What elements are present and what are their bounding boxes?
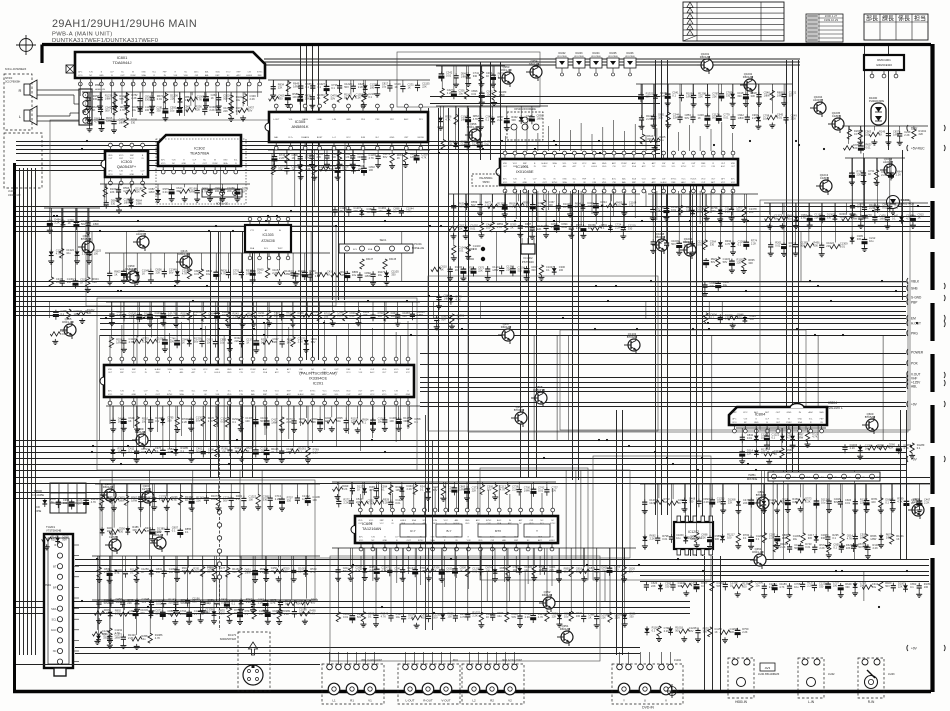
wire vertical x902 upper xyxy=(902,150,904,300)
svg-text:D1002: D1002 xyxy=(558,52,566,55)
wire stubs from IC601 pins xyxy=(360,481,552,589)
svg-text:2.2K: 2.2K xyxy=(258,600,264,604)
svg-text:AGC: AGC xyxy=(51,628,57,632)
IC302 TEA5708A xyxy=(158,135,241,174)
svg-text:VDD: VDD xyxy=(382,369,387,371)
svg-text:VDD: VDD xyxy=(227,394,232,396)
svg-text:H080-IN: H080-IN xyxy=(735,700,748,704)
component cluster x700 y255 xyxy=(702,257,755,297)
outside border arc marks xyxy=(944,125,945,651)
svg-text:DUNTKA317WEF1/DUNTKA317WEF0: DUNTKA317WEF1/DUNTKA317WEF0 xyxy=(52,38,158,44)
wire bus top audio xyxy=(264,59,800,65)
svg-text:OP1001 ROOMADE: OP1001 ROOMADE xyxy=(514,108,536,111)
wire bus y496 left xyxy=(16,493,240,499)
svg-text:0.1: 0.1 xyxy=(362,420,366,424)
IC1001 dashed option box PAL/N56011 56PIN xyxy=(472,174,500,186)
svg-text:IC1202: IC1202 xyxy=(688,530,699,534)
svg-text:MTX: MTX xyxy=(495,529,501,533)
svg-text:AN5891K: AN5891K xyxy=(291,124,308,129)
component cluster x330-440 y200 xyxy=(332,206,414,217)
svg-text:1K: 1K xyxy=(433,568,436,572)
svg-text:SCL: SCL xyxy=(51,617,57,621)
svg-text:4.7K: 4.7K xyxy=(355,569,361,573)
svg-text:100: 100 xyxy=(312,498,317,502)
transistor Q350 A1015Y xyxy=(133,229,149,251)
svg-text:50V: 50V xyxy=(196,450,201,454)
wire bus upper left xyxy=(16,142,660,154)
svg-text:CLP: CLP xyxy=(144,391,149,393)
component cluster bottom right lower xyxy=(644,580,932,642)
svg-text:NC: NC xyxy=(53,649,57,653)
svg-text:100: 100 xyxy=(94,251,99,255)
svg-text:R3138: R3138 xyxy=(389,258,397,261)
component cluster Q200 area xyxy=(95,484,320,542)
svg-text:2.2K: 2.2K xyxy=(182,420,188,424)
right edge signal stubs xyxy=(907,125,925,651)
wire stubs from IC201 pins xyxy=(110,311,408,453)
svg-text:330: 330 xyxy=(628,227,633,231)
svg-text:C1815: C1815 xyxy=(832,114,841,118)
svg-text:GND: GND xyxy=(787,412,792,414)
wire bus y280-305 xyxy=(16,282,906,302)
svg-text:KDS794E: KDS794E xyxy=(574,56,584,58)
svg-text:J1203: J1203 xyxy=(888,673,895,676)
svg-text:GND: GND xyxy=(390,137,395,139)
svg-text:22K: 22K xyxy=(664,500,669,504)
svg-text:EM: EM xyxy=(911,316,916,320)
resistor R3137 R3138 pair xyxy=(360,258,397,269)
svg-text:BT05AR: BT05AR xyxy=(865,415,876,419)
svg-text:課長: 課長 xyxy=(882,14,894,22)
svg-text:CW: CW xyxy=(662,163,665,165)
svg-text:22K: 22K xyxy=(317,155,322,159)
component cluster below Q353 area xyxy=(436,106,548,150)
svg-text:Y-IN: Y-IN xyxy=(172,160,176,162)
svg-text:APC: APC xyxy=(108,170,113,173)
svg-text:22K: 22K xyxy=(673,115,678,119)
svg-text:10u: 10u xyxy=(457,317,462,321)
svg-text:10u: 10u xyxy=(378,420,383,424)
svg-text:AFC: AFC xyxy=(754,411,759,414)
svg-text:4.7K: 4.7K xyxy=(310,570,316,574)
svg-text:Y-IN: Y-IN xyxy=(358,372,362,374)
wire vertical bundle x300 xyxy=(301,46,319,360)
svg-text:330: 330 xyxy=(145,98,150,102)
svg-text:D601-AR: D601-AR xyxy=(62,320,74,324)
svg-text:22K: 22K xyxy=(234,339,239,343)
svg-text:VCC: VCC xyxy=(322,391,327,393)
svg-text:0.01: 0.01 xyxy=(157,97,163,101)
svg-text:VCC: VCC xyxy=(721,182,726,184)
svg-text:10u: 10u xyxy=(459,91,464,95)
wire bus y673 bottom xyxy=(16,664,320,666)
svg-text:AGC: AGC xyxy=(322,393,327,396)
svg-text:0.1: 0.1 xyxy=(128,450,132,454)
svg-text:22K: 22K xyxy=(698,94,703,98)
svg-text:GND: GND xyxy=(132,394,137,396)
wire bus y440-470 xyxy=(16,441,906,471)
svg-text:1K: 1K xyxy=(918,216,921,220)
svg-text:4.7K: 4.7K xyxy=(368,501,374,505)
svg-text:1K: 1K xyxy=(299,420,302,424)
wire bus y205-235 xyxy=(16,207,930,232)
svg-text:AGC: AGC xyxy=(612,178,617,181)
svg-text:SDA: SDA xyxy=(552,162,557,165)
diode D1002 PX02T4CE xyxy=(887,196,915,215)
svg-text:4.7K: 4.7K xyxy=(369,156,375,160)
wire vertical bundle x208-252 xyxy=(211,232,253,478)
svg-text:0.01: 0.01 xyxy=(156,601,162,605)
svg-text:1K: 1K xyxy=(698,116,701,120)
sub-circuit outline boxes xyxy=(50,52,910,661)
svg-text:0.01: 0.01 xyxy=(723,116,729,120)
svg-text:50V: 50V xyxy=(105,108,110,112)
svg-text:0.01: 0.01 xyxy=(472,570,478,574)
svg-text:0.1: 0.1 xyxy=(172,528,176,532)
svg-text:FBP: FBP xyxy=(130,155,135,157)
svg-text:0C1CPB00BH: 0C1CPB00BH xyxy=(5,81,21,84)
wire vertical right x905 xyxy=(901,410,907,560)
svg-text:10u: 10u xyxy=(208,451,213,455)
svg-text:2.2K: 2.2K xyxy=(615,615,621,619)
svg-text:0.01: 0.01 xyxy=(297,314,303,318)
component cluster far left tuner x44 xyxy=(42,497,99,550)
svg-text:50V: 50V xyxy=(471,203,476,207)
svg-text:-0F5E: -0F5E xyxy=(35,510,42,513)
svg-text:2.2K: 2.2K xyxy=(250,97,256,101)
svg-text:BT09AR: BT09AR xyxy=(627,335,638,339)
op-amp IC801 TDA6944J audio amplifier xyxy=(75,52,265,86)
svg-text:2.2K: 2.2K xyxy=(208,419,214,423)
svg-text:ABL: ABL xyxy=(911,384,917,388)
transistor Q450 BT09AR xyxy=(511,405,527,427)
svg-text:1K: 1K xyxy=(92,108,95,112)
svg-text:1K: 1K xyxy=(397,156,400,160)
svg-text:SYNC: SYNC xyxy=(167,394,173,396)
border right thick line lower solid segment xyxy=(930,558,934,692)
transistor Q209 D601AR xyxy=(132,427,148,449)
svg-text:VCC: VCC xyxy=(681,179,686,181)
svg-text:J801 0-G01-G6ZZ: J801 0-G01-G6ZZ xyxy=(361,658,382,662)
svg-text:AGC: AGC xyxy=(681,181,686,184)
svg-text:VCO: VCO xyxy=(382,394,387,396)
svg-text:L1: L1 xyxy=(332,699,336,703)
svg-text:SDA: SDA xyxy=(250,247,255,250)
component cluster Q353 bias network xyxy=(436,66,507,106)
svg-text:FBP: FBP xyxy=(406,369,411,371)
svg-text:VDD: VDD xyxy=(478,540,483,542)
svg-text:APC: APC xyxy=(237,74,242,77)
svg-text:S-GND: S-GND xyxy=(911,295,922,299)
svg-text:V2: V2 xyxy=(508,699,512,703)
svg-text:TDA6944J: TDA6944J xyxy=(113,60,132,65)
svg-text:2.2K: 2.2K xyxy=(472,614,478,618)
component cluster IC1303 area xyxy=(293,270,400,286)
svg-text:係長: 係長 xyxy=(898,14,910,22)
svg-text:50V: 50V xyxy=(671,242,676,246)
bottom crosshair mark xyxy=(668,687,677,696)
svg-text:S0000/S3T2ZZ: S0000/S3T2ZZ xyxy=(220,638,237,641)
svg-text:PST994C: PST994C xyxy=(522,260,534,264)
transistor Q1002 D601AR xyxy=(740,72,756,94)
svg-text:2.2K: 2.2K xyxy=(298,340,304,344)
svg-text:330: 330 xyxy=(827,215,832,219)
svg-text:330: 330 xyxy=(93,97,98,101)
svg-text:SDA: SDA xyxy=(632,178,637,181)
svg-text:50V: 50V xyxy=(512,615,517,619)
svg-text:APC: APC xyxy=(359,536,364,539)
svg-text:50V: 50V xyxy=(441,317,446,321)
border bottom thick line xyxy=(13,690,931,694)
wire vertical bundle x790 xyxy=(787,60,799,478)
svg-text:0.1: 0.1 xyxy=(232,420,236,424)
svg-text:22K: 22K xyxy=(601,569,606,573)
svg-text:50V: 50V xyxy=(104,601,109,605)
svg-text:A1015Y: A1015Y xyxy=(883,160,893,164)
svg-text:10u: 10u xyxy=(324,314,329,318)
svg-text:APC: APC xyxy=(161,159,166,162)
svg-text:2.2K: 2.2K xyxy=(646,117,652,121)
svg-text:330: 330 xyxy=(629,614,634,618)
IC804 top dome coil symbol xyxy=(790,404,804,409)
svg-text:1K: 1K xyxy=(246,449,249,453)
svg-text:PWB1: PWB1 xyxy=(748,473,756,477)
svg-text:GND: GND xyxy=(602,163,607,165)
svg-text:1K: 1K xyxy=(182,340,185,344)
svg-text:IC1303: IC1303 xyxy=(263,233,274,237)
svg-text:SDA: SDA xyxy=(263,371,268,374)
svg-text:2.2K: 2.2K xyxy=(279,156,285,160)
IC601 TA1216AN RGB processor xyxy=(351,508,558,551)
svg-text:330: 330 xyxy=(131,121,136,125)
IC804 pin name row xyxy=(732,411,824,414)
transistor Q200 C2735 xyxy=(138,484,154,506)
svg-text:BT09AR: BT09AR xyxy=(514,408,525,412)
svg-text:22K: 22K xyxy=(537,227,542,231)
svg-text:H-BLK: H-BLK xyxy=(690,179,697,181)
svg-text:10u: 10u xyxy=(236,98,241,102)
svg-text:Y-IN: Y-IN xyxy=(743,419,747,421)
connector P801 header xyxy=(79,84,106,125)
svg-text:0.01: 0.01 xyxy=(395,501,401,505)
svg-text:10u: 10u xyxy=(382,84,387,88)
svg-text:56PIN: 56PIN xyxy=(483,181,490,184)
svg-text:10u: 10u xyxy=(649,501,654,505)
svg-text:1/8W: 1/8W xyxy=(129,314,136,318)
svg-text:SYNC: SYNC xyxy=(671,179,677,181)
svg-text:0.1: 0.1 xyxy=(509,205,513,209)
svg-text:B708AR: B708AR xyxy=(81,237,91,241)
svg-text:POK: POK xyxy=(911,361,919,365)
svg-text:R3137: R3137 xyxy=(366,258,374,261)
svg-text:0.01: 0.01 xyxy=(343,615,349,619)
svg-text:BT: BT xyxy=(53,564,57,568)
svg-text:PAL/N56011: PAL/N56011 xyxy=(479,177,493,180)
svg-text:100: 100 xyxy=(369,168,374,172)
wire vertical bundle bottom x700-730 xyxy=(705,556,721,690)
svg-text:CNT: CNT xyxy=(404,137,409,139)
svg-text:GND: GND xyxy=(227,372,232,374)
svg-text:0.01: 0.01 xyxy=(471,92,477,96)
test point TP1001 xyxy=(481,247,485,251)
svg-text:22K: 22K xyxy=(342,168,347,172)
svg-text:100: 100 xyxy=(370,85,375,89)
svg-text:0.1: 0.1 xyxy=(414,420,418,424)
svg-text:2.2K: 2.2K xyxy=(615,225,621,229)
svg-text:22K: 22K xyxy=(601,615,606,619)
link connector J0201 column xyxy=(207,445,222,630)
svg-text:AGC: AGC xyxy=(497,519,502,522)
svg-text:1K: 1K xyxy=(246,341,249,345)
svg-text:Y-IN: Y-IN xyxy=(120,391,124,393)
svg-text:GND: GND xyxy=(383,540,388,542)
svg-text:330: 330 xyxy=(751,94,756,98)
svg-text:CLP: CLP xyxy=(701,182,706,184)
svg-text:MODE: MODE xyxy=(418,137,425,139)
svg-text:TP1002: TP1002 xyxy=(466,258,475,261)
registration crosshair mark xyxy=(20,39,33,52)
svg-text:PRG: PRG xyxy=(911,331,918,335)
svg-text:0.1: 0.1 xyxy=(312,313,316,317)
IC1303 AT26C08 EEPROM xyxy=(245,217,291,260)
svg-text:VTSTEHD4B: VTSTEHD4B xyxy=(46,529,62,533)
IC305 AN5891K sound processor xyxy=(265,104,428,150)
svg-text:29AH1/29UH1/29UH6 MAIN: 29AH1/29UH1/29UH6 MAIN xyxy=(52,18,197,30)
transistor Q351 D601AR xyxy=(557,624,573,646)
svg-text:2.2K: 2.2K xyxy=(343,500,349,504)
svg-text:22K: 22K xyxy=(919,132,924,136)
svg-text:0.01: 0.01 xyxy=(497,225,503,229)
svg-text:FBP: FBP xyxy=(203,391,208,393)
svg-text:330: 330 xyxy=(332,155,337,159)
svg-text:CW: CW xyxy=(239,372,242,374)
svg-text:4.7K: 4.7K xyxy=(381,614,387,618)
svg-text:22K: 22K xyxy=(472,489,477,493)
svg-text:GND: GND xyxy=(562,179,567,181)
svg-text:SDA: SDA xyxy=(215,71,220,74)
svg-text:FBP: FBP xyxy=(394,372,399,374)
transistor Q451 D601-AR xyxy=(750,547,766,569)
svg-text:0.01: 0.01 xyxy=(777,116,783,120)
svg-text:1K: 1K xyxy=(395,85,398,89)
svg-text:GND: GND xyxy=(141,72,146,74)
svg-text:2.2K: 2.2K xyxy=(904,133,910,137)
svg-text:Y-IN: Y-IN xyxy=(371,537,375,539)
svg-text:1K: 1K xyxy=(344,95,347,99)
svg-text:50V: 50V xyxy=(170,340,175,344)
connector strip P1001 NOISE ICE xyxy=(339,238,424,253)
svg-text:B-Y: B-Y xyxy=(446,529,451,533)
component cluster left edge y220-300 xyxy=(44,208,102,292)
svg-text:100: 100 xyxy=(853,146,858,150)
component cluster above IC601 xyxy=(332,482,558,508)
svg-text:TP201: TP201 xyxy=(44,584,52,587)
transistor Q455 D601-AR xyxy=(60,317,76,339)
svg-text:APC: APC xyxy=(287,393,292,396)
svg-text:0.01: 0.01 xyxy=(446,73,452,77)
svg-text:H-BLK: H-BLK xyxy=(214,372,221,374)
dashed box OP1001 ROOM ADE xyxy=(507,108,543,140)
svg-text:1K: 1K xyxy=(678,501,681,505)
svg-text:0.1: 0.1 xyxy=(219,569,223,573)
svg-text:FBP: FBP xyxy=(216,75,221,77)
svg-text:L2: L2 xyxy=(472,699,476,703)
svg-text:CLP: CLP xyxy=(370,369,375,371)
svg-text:10u: 10u xyxy=(564,615,569,619)
svg-text:D601-AR: D601-AR xyxy=(500,68,512,72)
svg-text:U: U xyxy=(644,699,646,703)
svg-text:330: 330 xyxy=(263,497,268,501)
svg-text:1K: 1K xyxy=(292,156,295,160)
svg-text:10u: 10u xyxy=(170,108,175,112)
svg-text:APC: APC xyxy=(731,178,736,181)
svg-text:22K: 22K xyxy=(329,167,334,171)
component cluster far right y300-400 xyxy=(704,313,757,329)
svg-text:50V: 50V xyxy=(196,419,201,423)
svg-text:NOISE+CE: NOISE+CE xyxy=(412,247,425,250)
svg-text:1K: 1K xyxy=(208,314,211,318)
svg-text:50V: 50V xyxy=(287,341,292,345)
svg-text:4.7K: 4.7K xyxy=(801,216,807,220)
svg-text:4.7K: 4.7K xyxy=(197,97,203,101)
svg-text:GND: GND xyxy=(798,419,803,421)
svg-text:100: 100 xyxy=(421,616,426,620)
arrow up symbol inside S-video box xyxy=(249,642,258,655)
svg-text:CW: CW xyxy=(248,72,251,74)
svg-text:CLP: CLP xyxy=(765,419,770,421)
svg-text:APC: APC xyxy=(652,181,657,184)
svg-text:CW: CW xyxy=(550,537,553,539)
svg-text:AGC: AGC xyxy=(239,390,244,393)
svg-text:0.1: 0.1 xyxy=(181,449,185,453)
svg-text:22K: 22K xyxy=(311,420,316,424)
svg-text:TU201: TU201 xyxy=(46,525,55,529)
svg-text:VCO: VCO xyxy=(701,166,706,168)
wire bus y353-392 right of IC201 xyxy=(420,354,906,392)
svg-text:330: 330 xyxy=(132,528,137,532)
wire mesh verticals xyxy=(50,153,883,601)
svg-text:50V: 50V xyxy=(223,97,228,101)
svg-text:VCO: VCO xyxy=(275,391,280,393)
svg-text:10u: 10u xyxy=(658,116,663,120)
svg-text:330: 330 xyxy=(156,109,161,113)
svg-text:MS149TL: MS149TL xyxy=(828,406,843,410)
svg-text:FBP: FBP xyxy=(163,72,168,74)
svg-text:L-IN: L-IN xyxy=(332,119,336,121)
svg-text:2.2K: 2.2K xyxy=(458,205,464,209)
svg-text:H-BLK: H-BLK xyxy=(661,182,668,184)
svg-text:0.01: 0.01 xyxy=(458,248,464,252)
transistor Q568 C1815YB xyxy=(531,385,547,407)
svg-text:0.1: 0.1 xyxy=(232,601,236,605)
IC305 pin name rows xyxy=(273,118,424,139)
svg-text:VCO: VCO xyxy=(108,174,113,176)
svg-text:APC: APC xyxy=(239,368,244,371)
svg-text:22K: 22K xyxy=(814,216,819,220)
small box AV3 xyxy=(760,663,775,671)
svg-text:VCO: VCO xyxy=(732,422,737,424)
svg-text:50V: 50V xyxy=(629,569,634,573)
svg-text:0.1: 0.1 xyxy=(236,497,240,501)
svg-text:AGC: AGC xyxy=(721,165,726,168)
svg-text:22K: 22K xyxy=(749,210,754,214)
svg-text:Y-IN: Y-IN xyxy=(394,391,398,393)
svg-text:VCC: VCC xyxy=(582,163,587,165)
transistor Q203 D601AR xyxy=(100,482,116,504)
connector J1202 L-IN xyxy=(798,658,835,704)
svg-text:50V: 50V xyxy=(181,601,186,605)
svg-text:1K: 1K xyxy=(357,488,360,492)
